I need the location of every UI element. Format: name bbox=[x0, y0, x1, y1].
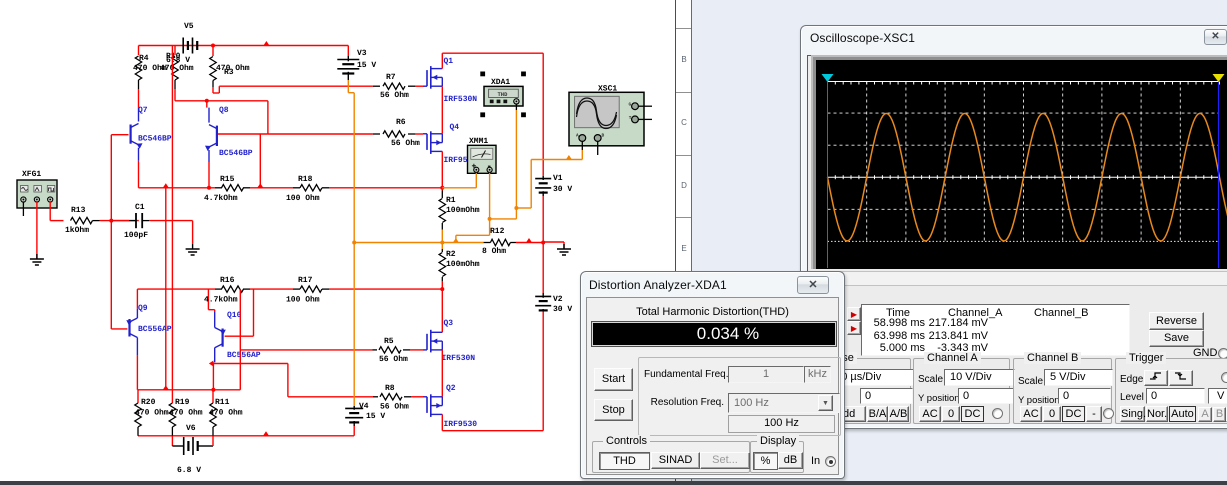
wire top rail V5/R4/R10/R3 to V3 bbox=[139, 45, 349, 47]
resistor R5 bbox=[373, 349, 378, 351]
junction arrow lower bbox=[163, 385, 169, 390]
svg-text:V6: V6 bbox=[186, 424, 196, 433]
junction arrow step bbox=[453, 238, 459, 243]
T1/T2 arrow buttons bbox=[847, 307, 861, 321]
svg-text:R4: R4 bbox=[139, 54, 149, 63]
oscilloscope icon XSC1 bbox=[569, 92, 644, 146]
svg-text:BC556AP: BC556AP bbox=[227, 351, 261, 360]
svg-text:XMM1: XMM1 bbox=[469, 137, 488, 146]
wire mirror row down bbox=[267, 101, 269, 134]
transistor Q8 BC546BP bbox=[216, 126, 218, 146]
Start / Stop bbox=[594, 368, 633, 391]
wire R7 row bbox=[219, 85, 372, 87]
battery V1 bbox=[542, 176, 544, 180]
resistor R8 bbox=[373, 396, 378, 398]
junction dot bbox=[514, 206, 518, 210]
svg-text:C1: C1 bbox=[135, 203, 145, 212]
wire ground stub bbox=[543, 241, 564, 243]
wire long vertical mid1 bbox=[165, 188, 167, 390]
junction dot at R2 bottom node bbox=[440, 287, 444, 291]
wire R16 R17 row bbox=[137, 288, 215, 290]
svg-text:V2: V2 bbox=[553, 295, 563, 304]
wire top right rail bbox=[442, 52, 543, 54]
wire R6 to Q4 gate bbox=[415, 133, 423, 135]
svg-text:15 V: 15 V bbox=[366, 412, 385, 421]
wire Q7 base bbox=[111, 134, 128, 136]
ground near C1 bbox=[192, 244, 194, 249]
svg-text:THD: THD bbox=[498, 91, 509, 98]
orange step to XMM1 minus bbox=[455, 235, 457, 242]
mosfet Q3 IRF530N bbox=[426, 334, 428, 350]
scrollbar strip bbox=[812, 271, 1227, 286]
svg-text:R2: R2 bbox=[446, 250, 456, 259]
orange wire to XSC1 and V1 bbox=[516, 207, 531, 209]
XFG1 left terminal stub bbox=[22, 202, 24, 216]
wire Q9 base bbox=[110, 328, 112, 330]
wire long vertical mid2 from rail bbox=[171, 46, 173, 404]
svg-text:100pF: 100pF bbox=[124, 231, 148, 240]
wire C1 left bbox=[111, 220, 129, 222]
junction arrow Q10 collector bbox=[209, 361, 214, 367]
wire Q1 source to Q4 drain bbox=[441, 86, 443, 133]
battery V2 bbox=[542, 309, 544, 311]
wire Q10 emitter jog bbox=[214, 312, 216, 328]
svg-text:30 V: 30 V bbox=[553, 185, 572, 194]
svg-text:6.8 V: 6.8 V bbox=[177, 466, 201, 475]
svg-text:R20: R20 bbox=[141, 398, 156, 407]
wire R13 to input node bbox=[100, 220, 139, 222]
wire rail up to V2 bbox=[542, 311, 544, 431]
svg-text:100mOhm: 100mOhm bbox=[446, 206, 480, 215]
junction arrow R12 right bbox=[526, 238, 532, 243]
wire Q9 emitter up bbox=[136, 309, 138, 318]
svg-text:470 Ohm: 470 Ohm bbox=[209, 409, 243, 418]
svg-text:470 Ohm: 470 Ohm bbox=[216, 64, 250, 73]
function generator XFG1 bbox=[17, 180, 57, 208]
svg-text:470 Ohm: 470 Ohm bbox=[135, 409, 169, 418]
resistor R10 bbox=[174, 46, 176, 56]
mosfet Q2 IRF9530 bbox=[426, 397, 428, 413]
wire V1 to R12 node bbox=[542, 196, 544, 243]
junction dot Q8 emitter at row bbox=[207, 186, 211, 190]
svg-text:IRF530N: IRF530N bbox=[444, 95, 478, 104]
svg-text:56 Ohm: 56 Ohm bbox=[391, 139, 420, 148]
wire R7 to Q1 gate bbox=[415, 85, 423, 87]
wire Q7 emitter bbox=[138, 148, 140, 161]
wire node to R6 bbox=[268, 133, 373, 135]
junction dot bbox=[211, 388, 215, 392]
XSC1 A terminal wire bbox=[581, 141, 583, 150]
svg-text:Q3: Q3 bbox=[444, 319, 454, 328]
svg-text:V3: V3 bbox=[357, 49, 367, 58]
junction dot bbox=[488, 217, 492, 221]
wire Q3 source to Q2 bbox=[441, 350, 443, 397]
mosfet Q1 IRF530N bbox=[426, 70, 428, 86]
selection handles around XDA1 bbox=[480, 72, 485, 77]
svg-text:R12: R12 bbox=[490, 227, 505, 236]
resistor R18 bbox=[293, 187, 300, 189]
junction dot V rail at R12 bbox=[541, 241, 545, 245]
wire R2 to Q3 drain bbox=[441, 281, 443, 332]
orange output row bbox=[354, 242, 483, 244]
junction dot output bbox=[440, 241, 444, 245]
wire Q4 source down to R1 bbox=[441, 151, 443, 190]
wire Q8 collector blue bbox=[208, 108, 210, 123]
svg-text:100 Ohm: 100 Ohm bbox=[286, 296, 320, 305]
wire vertical to R15 row bbox=[259, 134, 261, 188]
wire R5 row bbox=[240, 349, 372, 351]
wire mirror row R10 to Q8 bbox=[175, 100, 268, 102]
XSC1 B terminal stub bbox=[597, 141, 599, 155]
transistor Q7 BC546BP bbox=[130, 125, 132, 144]
svg-text:R1: R1 bbox=[446, 196, 456, 205]
svg-text:Q9: Q9 bbox=[138, 304, 148, 313]
svg-text:R13: R13 bbox=[71, 206, 86, 215]
Trigger group bbox=[1115, 358, 1227, 424]
status bar bbox=[0, 481, 1227, 485]
svg-text:15 V: 15 V bbox=[357, 61, 376, 70]
wire R15 R18 row bbox=[139, 187, 216, 189]
battery V6 bbox=[171, 436, 173, 446]
wire R20 row bbox=[137, 389, 240, 391]
wire R8 to Q2 gate bbox=[411, 396, 423, 398]
svg-text:56 Ohm: 56 Ohm bbox=[380, 403, 409, 412]
XSC1 G terminal stub bbox=[638, 105, 652, 107]
svg-text:BC546BP: BC546BP bbox=[138, 135, 172, 144]
resistor R15 bbox=[215, 187, 222, 189]
wire between R15 R18 bbox=[250, 187, 293, 189]
resistor R17 bbox=[293, 288, 300, 290]
svg-text:Q4: Q4 bbox=[450, 123, 460, 132]
wire R5 to Q3 gate bbox=[410, 349, 423, 351]
resistor R11 bbox=[212, 390, 214, 403]
wire C1 right to ground bbox=[149, 220, 193, 222]
resistor R16 bbox=[215, 288, 222, 290]
Timebase group (mostly covered by DA window) bbox=[814, 358, 911, 424]
svg-text:Q1: Q1 bbox=[444, 57, 454, 66]
svg-text:R18: R18 bbox=[298, 175, 313, 184]
transistor Q9 BC556AP bbox=[128, 319, 130, 337]
svg-text:XFG1: XFG1 bbox=[22, 170, 41, 179]
wire Q10 collector to gates bbox=[213, 363, 288, 365]
inner group: frequencies bbox=[638, 357, 841, 436]
wire input node vertical bbox=[110, 135, 112, 329]
resistor R12 bbox=[484, 242, 491, 244]
resistor R4 bbox=[138, 46, 140, 56]
measurement list bbox=[861, 304, 1130, 356]
orange wire XDA1 down bbox=[515, 104, 517, 110]
Channel A group bbox=[913, 358, 1010, 424]
battery V5 bbox=[182, 38, 184, 54]
wire Q8 emitter bbox=[208, 150, 210, 162]
junction dot orange at output row bbox=[352, 241, 356, 245]
battery V4 bbox=[353, 406, 355, 410]
battery V3 bbox=[337, 59, 359, 61]
transistor Q10 BC556AP bbox=[222, 329, 224, 347]
svg-text:V1: V1 bbox=[553, 174, 563, 183]
svg-text:100 Ohm: 100 Ohm bbox=[286, 194, 320, 203]
black THD display bbox=[591, 321, 837, 347]
svg-text:8 Ohm: 8 Ohm bbox=[482, 247, 506, 256]
svg-text:R5: R5 bbox=[384, 337, 394, 346]
capacitor C1 bbox=[135, 213, 137, 228]
svg-text:B: B bbox=[602, 134, 605, 139]
svg-text:IRF9530: IRF9530 bbox=[444, 420, 478, 429]
junction arrow bottom rail bbox=[263, 431, 269, 436]
svg-text:4.7kOhm: 4.7kOhm bbox=[204, 296, 238, 305]
wire bottom right rail bbox=[442, 430, 543, 432]
svg-text:4.7kOhm: 4.7kOhm bbox=[204, 194, 238, 203]
svg-text:Q10: Q10 bbox=[227, 311, 242, 320]
resistor R3 bbox=[212, 46, 214, 57]
svg-text:V5: V5 bbox=[184, 22, 194, 31]
multimeter XMM1 bbox=[468, 145, 497, 173]
svg-text:R16: R16 bbox=[220, 276, 235, 285]
wire Q10 base bbox=[225, 335, 254, 337]
orange wire V3 to V4 vertical bbox=[347, 80, 349, 93]
resistor R2 bbox=[441, 243, 443, 250]
ground under XFG1 bbox=[36, 254, 38, 259]
svg-text:470 Ohm: 470 Ohm bbox=[160, 64, 194, 73]
resistor R20 bbox=[137, 390, 139, 403]
orange wire XMM1 plus to R1 node bbox=[475, 173, 477, 188]
svg-text:56 Ohm: 56 Ohm bbox=[379, 355, 408, 364]
svg-text:R19: R19 bbox=[175, 398, 190, 407]
svg-text:Q8: Q8 bbox=[219, 106, 229, 115]
resistor R6 bbox=[373, 133, 380, 135]
wire R18 to output column bbox=[329, 187, 442, 189]
function generator ground wire bbox=[36, 202, 38, 259]
svg-text:1kOhm: 1kOhm bbox=[65, 226, 89, 235]
wire V3 top lead bbox=[347, 46, 349, 57]
svg-text:XDA1: XDA1 bbox=[491, 78, 510, 87]
wire V2 to output row bbox=[542, 243, 544, 294]
XSC1 T terminal stub bbox=[638, 118, 652, 120]
svg-text:470 Ohm: 470 Ohm bbox=[169, 409, 203, 418]
wire R17 to R2 node bbox=[329, 288, 442, 290]
wire bottom left rail bbox=[138, 435, 354, 437]
Controls group bbox=[592, 441, 750, 473]
Display group bbox=[750, 441, 804, 473]
wire R4 to Q7 collector bbox=[138, 89, 140, 108]
function generator output wire bbox=[49, 202, 51, 221]
junction dot at R1 top node bbox=[440, 186, 444, 190]
svg-text:R17: R17 bbox=[298, 276, 313, 285]
mosfet Q4 IRF9530 bbox=[426, 134, 428, 150]
svg-text:R8: R8 bbox=[385, 384, 395, 393]
resistor R7 bbox=[373, 85, 380, 87]
wire V4 to bottom rail bbox=[353, 426, 355, 436]
junction dot R3 top bbox=[211, 44, 215, 48]
orange wire R1 to output row bbox=[441, 230, 443, 243]
wire Q2 drain to bottom rail bbox=[441, 414, 443, 430]
junction arrow on top rail bbox=[263, 41, 269, 46]
svg-text:XSC1: XSC1 bbox=[598, 85, 617, 94]
junction arrow bbox=[163, 183, 169, 188]
workspace background bbox=[691, 0, 1227, 485]
svg-text:IRF95: IRF95 bbox=[444, 156, 468, 165]
svg-text:R7: R7 bbox=[386, 73, 396, 82]
svg-text:R10: R10 bbox=[166, 52, 181, 61]
wire Q7 collector blue bbox=[138, 108, 140, 122]
wire R8 row bbox=[288, 396, 373, 398]
svg-text:30 V: 30 V bbox=[553, 305, 572, 314]
svg-text:T: T bbox=[629, 116, 632, 121]
sheet border strip bbox=[675, 0, 692, 485]
svg-text:R11: R11 bbox=[215, 398, 230, 407]
resistor R19 bbox=[171, 402, 173, 404]
svg-text:Q7: Q7 bbox=[138, 106, 148, 115]
resistor R1 bbox=[441, 191, 443, 199]
resistor R13 bbox=[64, 220, 71, 222]
svg-text:R6: R6 bbox=[396, 118, 406, 127]
wire Q9 collector down bbox=[136, 338, 138, 356]
junction arrow at R15 row bbox=[257, 183, 263, 188]
svg-text:G: G bbox=[629, 102, 632, 108]
svg-text:R15: R15 bbox=[220, 175, 235, 184]
svg-text:56 Ohm: 56 Ohm bbox=[380, 91, 409, 100]
wire rail down to V1 bbox=[542, 53, 544, 176]
svg-text:V4: V4 bbox=[359, 402, 369, 411]
wire Q10 collector bbox=[214, 348, 216, 363]
svg-text:IRF530N: IRF530N bbox=[442, 354, 476, 363]
junction arrow near XSC1 bbox=[566, 155, 572, 160]
junction dot input node bbox=[109, 219, 113, 223]
wire vertical R16row to R5 row bbox=[239, 289, 241, 390]
wire Q1 drain to top bbox=[441, 53, 443, 68]
wire R10 to mirror node bbox=[174, 89, 176, 101]
junction dot Q8 collector bbox=[205, 99, 209, 103]
wire Q8 base row bbox=[217, 133, 268, 135]
wire R3 bottom jog to R7 row bbox=[212, 87, 214, 93]
svg-text:Q2: Q2 bbox=[446, 384, 456, 393]
svg-text:BC556AP: BC556AP bbox=[138, 325, 172, 334]
svg-text:BC546BP: BC546BP bbox=[219, 149, 253, 158]
Reverse / Save bbox=[1149, 312, 1204, 330]
orange wire XDA1 to XMM1 net bbox=[490, 218, 517, 220]
ground near V2 bbox=[563, 244, 565, 249]
wire between R16 R17 bbox=[250, 288, 293, 290]
svg-text:A: A bbox=[576, 134, 579, 139]
svg-text:100mOhm: 100mOhm bbox=[446, 260, 480, 269]
distortion analyzer XDA1 bbox=[484, 86, 523, 106]
Channel B group bbox=[1013, 358, 1112, 424]
wire R12 to V rail bbox=[516, 242, 543, 244]
